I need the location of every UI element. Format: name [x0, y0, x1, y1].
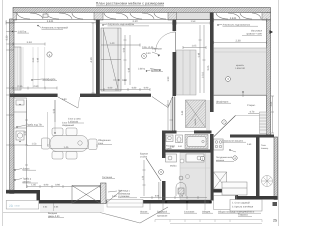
svg-text:0.60: 0.60: [123, 47, 126, 52]
svg-text:2.80 м: 2.80 м: [138, 68, 145, 71]
svg-text:2.38: 2.38: [235, 40, 241, 43]
svg-text:1.80х2.00: 1.80х2.00: [235, 67, 245, 70]
svg-text:0.98: 0.98: [55, 184, 60, 187]
svg-text:0.68 свет: 0.68 свет: [152, 48, 163, 51]
svg-text:План расстановки мебели с разм: План расстановки мебели с размерами: [96, 1, 165, 5]
svg-text:Стирал.: Стирал.: [247, 104, 256, 107]
svg-text:0.90: 0.90: [144, 87, 149, 90]
svg-text:0.60: 0.60: [270, 101, 273, 106]
svg-text:2D: 2D: [9, 204, 14, 208]
svg-text:Терраса: Терраса: [238, 214, 248, 217]
svg-text:0.90: 0.90: [53, 108, 56, 113]
svg-text:0.45: 0.45: [198, 52, 201, 57]
svg-text:помещ.: помещ.: [261, 147, 269, 150]
svg-text:2. Кресла плетёные: 2. Кресла плетёные: [232, 206, 254, 209]
svg-text:2.435: 2.435: [230, 17, 237, 20]
svg-text:4.19: 4.19: [90, 57, 93, 63]
svg-text:1.05: 1.05: [192, 45, 197, 48]
svg-text:0.90: 0.90: [62, 98, 67, 101]
svg-text:0.45: 0.45: [37, 57, 40, 62]
svg-text:0.60: 0.60: [32, 57, 35, 62]
svg-text:0.40: 0.40: [146, 52, 151, 55]
svg-text:забежными: забежными: [118, 192, 131, 195]
svg-text:прихожая: прихожая: [157, 215, 168, 218]
svg-text:план: план: [15, 205, 21, 208]
svg-text:1.05: 1.05: [31, 184, 36, 187]
svg-text:1.45: 1.45: [64, 146, 69, 149]
svg-text:шахта: шахта: [194, 118, 197, 125]
svg-text:1.20: 1.20: [142, 175, 145, 180]
svg-text:0.90: 0.90: [44, 184, 49, 187]
svg-text:0.30: 0.30: [6, 35, 9, 40]
svg-text:0.70: 0.70: [250, 111, 255, 114]
svg-text:обеденный: обеденный: [62, 124, 75, 127]
svg-text:3.05: 3.05: [207, 65, 210, 70]
svg-text:стойка: стойка: [140, 155, 148, 158]
svg-text:0.80: 0.80: [132, 87, 137, 90]
svg-text:0.35: 0.35: [18, 85, 23, 88]
svg-text:0.60: 0.60: [108, 87, 113, 90]
svg-text:2.07: 2.07: [24, 130, 27, 135]
svg-text:2.435: 2.435: [47, 20, 54, 23]
svg-text:Мойка: Мойка: [170, 165, 177, 168]
svg-text:Входная: Входная: [48, 212, 58, 215]
svg-text:0.90: 0.90: [112, 195, 117, 198]
svg-text:0.60: 0.60: [122, 79, 127, 82]
svg-text:25: 25: [273, 219, 277, 223]
svg-text:Техн.: Техн.: [261, 144, 267, 147]
svg-text:2.45: 2.45: [181, 110, 184, 115]
svg-text:1.53: 1.53: [32, 143, 37, 146]
svg-text:1.90: 1.90: [167, 76, 170, 81]
svg-text:1.40: 1.40: [110, 42, 115, 45]
svg-text:1.53: 1.53: [191, 20, 196, 23]
svg-text:кровать: кровать: [236, 64, 245, 67]
svg-text:Лестница с: Лестница с: [118, 190, 131, 193]
svg-text:кровати + свет: кровати + свет: [246, 33, 262, 36]
svg-text:Изголовье: Изголовье: [251, 30, 263, 33]
svg-text:1.14: 1.14: [26, 41, 32, 44]
svg-text:Стол у окна: Стол у окна: [68, 118, 81, 121]
svg-text:1. Стол садовый: 1. Стол садовый: [232, 202, 250, 205]
svg-text:0.715: 0.715: [202, 71, 205, 77]
svg-text:Барная: Барная: [140, 153, 149, 156]
svg-text:0.45: 0.45: [128, 67, 131, 72]
svg-text:Посудомоечная: Посудомоечная: [216, 156, 233, 159]
svg-text:0.60: 0.60: [34, 85, 39, 88]
